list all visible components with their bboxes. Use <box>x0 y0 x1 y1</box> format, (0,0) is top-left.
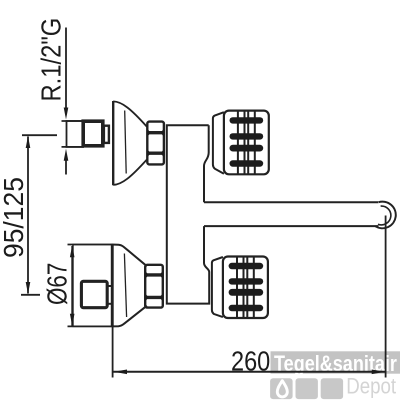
top escutcheon top contour <box>113 101 147 126</box>
body right edge top valve <box>204 125 209 202</box>
watermark square drop <box>270 378 293 399</box>
top hex nut <box>147 122 164 165</box>
svg-text:R.1/2"G: R.1/2"G <box>35 18 67 102</box>
top handle trapezoid <box>213 112 224 174</box>
extension line right (260) <box>385 216 387 378</box>
watermark square 2 <box>296 378 318 399</box>
svg-text:95/125: 95/125 <box>0 177 29 258</box>
top fitting thread section <box>83 121 103 146</box>
top handle knob <box>224 111 269 175</box>
bottom escutcheon rim <box>111 245 113 327</box>
bottom handle knob <box>223 257 268 319</box>
svg-text:Ø67: Ø67 <box>42 263 73 305</box>
top fitting tick bottom <box>62 146 85 148</box>
bottom handle grip bars <box>229 263 264 311</box>
dimension arrow down to fitting top <box>65 28 67 113</box>
bottom escutcheon shading line <box>124 254 126 318</box>
top fitting plain tube <box>67 121 84 147</box>
svg-text:260: 260 <box>231 347 270 377</box>
svg-text:Depot: Depot <box>346 375 396 399</box>
top fitting collar <box>104 126 109 143</box>
top escutcheon shading line <box>125 111 127 174</box>
bottom fitting tab <box>108 286 113 304</box>
spout top line <box>204 201 379 203</box>
bottom handle knurl vertical lines <box>237 257 254 318</box>
dim Ø67 top tick <box>68 244 112 246</box>
bottom escutcheon cone bottom <box>111 306 147 327</box>
extension line left (260) <box>112 327 114 378</box>
bottom hex nut <box>145 265 163 308</box>
bottom escutcheon cone top <box>111 245 147 267</box>
spout end knob inner <box>378 206 391 225</box>
spout end knob outer <box>376 202 396 229</box>
95/125 dim line <box>27 137 29 294</box>
95/125 top tick <box>22 134 57 136</box>
top escutcheon bottom contour <box>113 160 147 185</box>
dim Ø67 bottom tick <box>68 325 112 327</box>
bottom escutcheon back plate <box>73 245 112 327</box>
top fitting tick top <box>62 120 85 122</box>
svg-text:Tegel&sanitair: Tegel&sanitair <box>274 353 397 377</box>
260 dimension line <box>114 371 386 373</box>
95/125 bottom tick <box>21 294 40 296</box>
watermark square 3 <box>321 378 343 399</box>
top handle knurl vertical lines <box>238 111 255 174</box>
bottom handle trapezoid <box>212 257 223 317</box>
top escutcheon rim <box>112 101 114 185</box>
bottom fitting seen through <box>81 281 107 307</box>
dimension arrow up to fitting bottom <box>65 155 67 175</box>
top handle grip bars <box>230 117 264 167</box>
watermark banner <box>270 351 400 399</box>
faucet body outline <box>167 125 209 303</box>
dim Ø67 line with arrows <box>71 246 73 326</box>
spout bottom line <box>204 225 379 227</box>
